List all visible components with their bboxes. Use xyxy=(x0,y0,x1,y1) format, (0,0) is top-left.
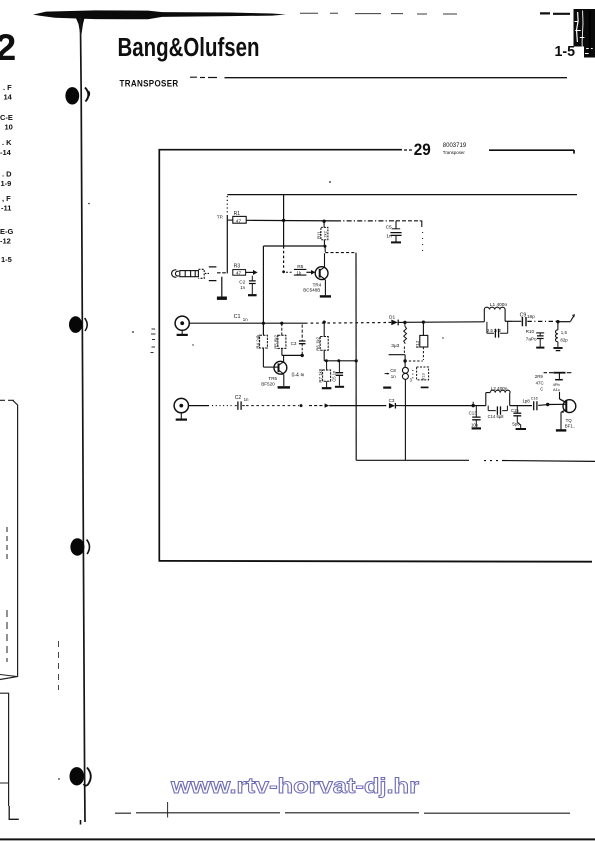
svg-text:1-5: 1-5 xyxy=(1,255,12,264)
resistor R4 xyxy=(255,334,267,367)
SCHEMATIC CONTENT xyxy=(172,195,577,461)
svg-text:. D: . D xyxy=(2,170,12,179)
SCHEMATIC CONTENT LOWER xyxy=(174,321,595,462)
wire vertical rail to R1 wire xyxy=(282,195,285,246)
binder hole 3 xyxy=(70,538,84,555)
svg-text:47: 47 xyxy=(236,271,242,276)
ground under P1 xyxy=(177,334,188,336)
svg-text:1n: 1n xyxy=(391,374,396,379)
wire vertical mid rail xyxy=(355,253,358,461)
label TP xyxy=(217,215,224,220)
capacitor C14 parallel xyxy=(488,406,508,419)
svg-text:C14 6μ8: C14 6μ8 xyxy=(488,414,505,419)
WATERMARK xyxy=(170,774,420,798)
ground for R10 branch xyxy=(536,347,544,349)
svg-text:10: 10 xyxy=(5,123,13,132)
wire bottom return rail xyxy=(356,460,595,461)
svg-text:C16: C16 xyxy=(531,397,538,401)
frame top edge xyxy=(159,149,403,151)
header rule xyxy=(190,76,217,78)
svg-text:TQ: TQ xyxy=(566,418,573,423)
top bar drip (page spine line root) xyxy=(75,16,85,34)
top-right scan blob xyxy=(574,9,595,47)
svg-text:C: C xyxy=(540,386,543,391)
page spine vertical line xyxy=(80,17,85,822)
small tick near bottom left-center xyxy=(167,802,169,818)
wire output hook xyxy=(558,315,575,322)
svg-text:Bang&Olufsen: Bang&Olufsen xyxy=(118,34,260,62)
svg-text:1k: 1k xyxy=(296,270,301,275)
ground under C13 xyxy=(472,427,481,429)
wire stub into coil node xyxy=(389,355,423,363)
binder hole 2 xyxy=(69,316,82,333)
wire dashed drop to TR4 base node xyxy=(282,246,285,273)
capacitor C13 xyxy=(469,406,481,428)
wire upper channel xyxy=(189,322,388,325)
svg-text:TR5: TR5 xyxy=(268,376,277,381)
svg-text:47: 47 xyxy=(236,218,242,224)
svg-text:10μ: 10μ xyxy=(471,423,479,428)
supply tap top right xyxy=(535,373,572,392)
capacitor C8 electrolytic xyxy=(385,361,413,460)
svg-text:R13: R13 xyxy=(422,373,426,380)
ground under TR5 xyxy=(278,386,290,389)
svg-text:C8: C8 xyxy=(390,368,396,373)
svg-text:R3: R3 xyxy=(234,264,241,270)
svg-text:5p6: 5p6 xyxy=(512,422,520,427)
ground under C15 xyxy=(516,428,526,430)
svg-text:1p8: 1p8 xyxy=(522,399,530,404)
stray specks xyxy=(88,203,90,205)
resistor R12 xyxy=(415,322,428,360)
svg-text:2.5 2n2: 2.5 2n2 xyxy=(487,328,502,333)
ground under TR6 xyxy=(556,429,566,431)
svg-text:BF1..: BF1.. xyxy=(565,424,576,429)
svg-text:3μ3: 3μ3 xyxy=(391,343,399,349)
svg-text:1n: 1n xyxy=(240,285,245,290)
svg-text:Transposer: Transposer xyxy=(443,150,466,155)
svg-text:. K: . K xyxy=(2,138,12,147)
svg-text:1,5: 1,5 xyxy=(561,330,568,335)
HEADER xyxy=(118,34,568,89)
ground under minijack xyxy=(217,297,227,300)
ground under R7 xyxy=(322,387,332,389)
bottom tick under spine line xyxy=(80,820,82,825)
label C1 xyxy=(234,314,249,322)
svg-text:BF520: BF520 xyxy=(261,381,275,386)
svg-text:A1c: A1c xyxy=(553,387,560,392)
wire R1 output net xyxy=(246,220,422,255)
resistor R7 xyxy=(318,361,331,388)
transistor TR4 xyxy=(303,253,328,295)
svg-text:1n: 1n xyxy=(244,397,249,402)
svg-text:TRANSPOSER: TRANSPOSER xyxy=(120,78,179,89)
ground for C5 xyxy=(391,241,401,243)
wire jack sleeve to ground xyxy=(221,277,223,297)
capacitor C2 input xyxy=(239,276,255,295)
binder hole 1 xyxy=(65,87,79,104)
wire vertical from rail to jack node xyxy=(226,196,228,273)
resistor R1 xyxy=(227,211,246,224)
svg-text:1n: 1n xyxy=(386,233,392,239)
svg-text:1-5: 1-5 xyxy=(555,43,576,60)
left bottom bracket xyxy=(9,806,19,819)
ground under C5b xyxy=(335,386,344,388)
svg-text:-11: -11 xyxy=(1,204,11,213)
diode D2 xyxy=(389,398,406,409)
wire TR4 collector rail xyxy=(263,245,355,253)
svg-text:-14: -14 xyxy=(0,148,12,157)
wire TR5 base xyxy=(263,366,277,368)
capacitor C5b xyxy=(331,361,343,386)
capacitor C15 xyxy=(511,406,521,429)
svg-text:82p: 82p xyxy=(560,337,568,342)
wire to L2 xyxy=(405,402,486,408)
capacitor C3 feedback xyxy=(291,325,306,356)
wire bias rail lower xyxy=(324,359,356,362)
wire vertical bias left branch xyxy=(262,246,265,335)
capacitor C2b series xyxy=(235,395,249,410)
resistor R3 xyxy=(233,264,258,276)
capacitor C5 xyxy=(386,221,402,242)
svg-text:C2: C2 xyxy=(235,395,242,401)
svg-text:C5: C5 xyxy=(386,225,392,231)
SCHEMATIC FRAME xyxy=(159,141,593,562)
binder hole 4 xyxy=(70,767,85,785)
inductor L1 400n xyxy=(484,302,513,322)
resistor R6 xyxy=(316,321,329,361)
svg-text:29: 29 xyxy=(414,141,431,159)
capacitor C16 series xyxy=(522,397,548,411)
svg-text:18p: 18p xyxy=(527,314,535,319)
svg-text:2: 2 xyxy=(0,26,16,68)
svg-text:E-G: E-G xyxy=(0,227,14,236)
svg-text:C1: C1 xyxy=(234,314,241,320)
wire dashed to mid xyxy=(246,403,386,407)
faint dashed line x58 xyxy=(58,641,60,690)
ground under TR4 xyxy=(320,295,331,297)
svg-text:. F: . F xyxy=(3,83,12,92)
svg-text:R10: R10 xyxy=(526,329,535,334)
ground for output branch xyxy=(553,348,562,351)
svg-text:, F: , F xyxy=(2,194,11,203)
resistor R11 xyxy=(316,221,328,246)
svg-text:7aPo: 7aPo xyxy=(526,337,537,342)
svg-text:C3: C3 xyxy=(291,341,297,346)
svg-text:47C: 47C xyxy=(536,380,544,385)
wire to L1 xyxy=(405,321,484,324)
wire supply top rail xyxy=(227,194,577,196)
inductor output branch xyxy=(556,322,569,347)
resistor R13 dashed xyxy=(413,367,429,380)
connector phono jack P2 xyxy=(174,398,188,418)
capacitor 2n2 parallel with L1 xyxy=(487,321,508,337)
resistor R5b xyxy=(274,322,286,356)
wire TR6 collector xyxy=(560,392,567,403)
bottom thin rule xyxy=(115,812,570,814)
frame left edge xyxy=(158,149,160,561)
ground for C2 xyxy=(248,294,257,296)
svg-text:-12: -12 xyxy=(0,237,11,246)
floating ground bar left xyxy=(383,387,391,389)
inductor L2 400n xyxy=(486,386,532,406)
top dashed remnants xyxy=(300,12,457,15)
svg-text:BC548B: BC548B xyxy=(303,288,320,293)
svg-text:2R9: 2R9 xyxy=(535,374,544,379)
top binder bar xyxy=(33,10,286,19)
resistor R5 with arrow xyxy=(286,264,315,276)
svg-text:www.rtv-horvat-dj.hr: www.rtv-horvat-dj.hr xyxy=(170,774,420,798)
capacitor C9 18p xyxy=(513,312,557,326)
svg-text:2k2: 2k2 xyxy=(323,230,328,237)
svg-text:1n: 1n xyxy=(243,317,248,322)
connector minijack J1 xyxy=(172,267,228,281)
svg-text:D1: D1 xyxy=(389,314,395,320)
bar under R13 xyxy=(421,386,429,388)
frame edge smudges xyxy=(151,329,156,347)
inductor 3u3 xyxy=(391,322,406,354)
bottom page edge line xyxy=(0,838,595,840)
left ghost box B xyxy=(0,693,9,806)
svg-text:C5 1n: C5 1n xyxy=(331,370,336,382)
wire lower channel entry xyxy=(189,405,235,407)
svg-text:TP.: TP. xyxy=(217,215,224,220)
svg-text:C-E: C-E xyxy=(0,113,13,122)
node output xyxy=(556,320,559,323)
svg-text:C15: C15 xyxy=(511,408,519,413)
svg-text:C3: C3 xyxy=(389,398,395,403)
wire TR5 collector rail xyxy=(282,354,304,357)
left margin index text column xyxy=(0,83,14,264)
transistor TR6 xyxy=(560,399,576,430)
svg-text:1-9: 1-9 xyxy=(1,179,12,188)
node coil tap xyxy=(403,321,406,324)
left ghost box A (adjacent page bleed) xyxy=(0,399,14,401)
svg-text:0-4 ≋: 0-4 ≋ xyxy=(292,372,305,378)
ground under P2 xyxy=(176,419,187,421)
diode D1 xyxy=(389,314,405,325)
svg-text:3: 3 xyxy=(410,378,413,383)
wire TR6 base xyxy=(546,403,566,406)
capacitor R10 branch xyxy=(526,329,545,347)
svg-text:14: 14 xyxy=(4,93,13,102)
connector phono jack P1 xyxy=(175,316,189,334)
transistor TR5 xyxy=(261,355,304,386)
frame bottom edge xyxy=(159,560,593,563)
svg-text:8003719: 8003719 xyxy=(443,143,467,149)
